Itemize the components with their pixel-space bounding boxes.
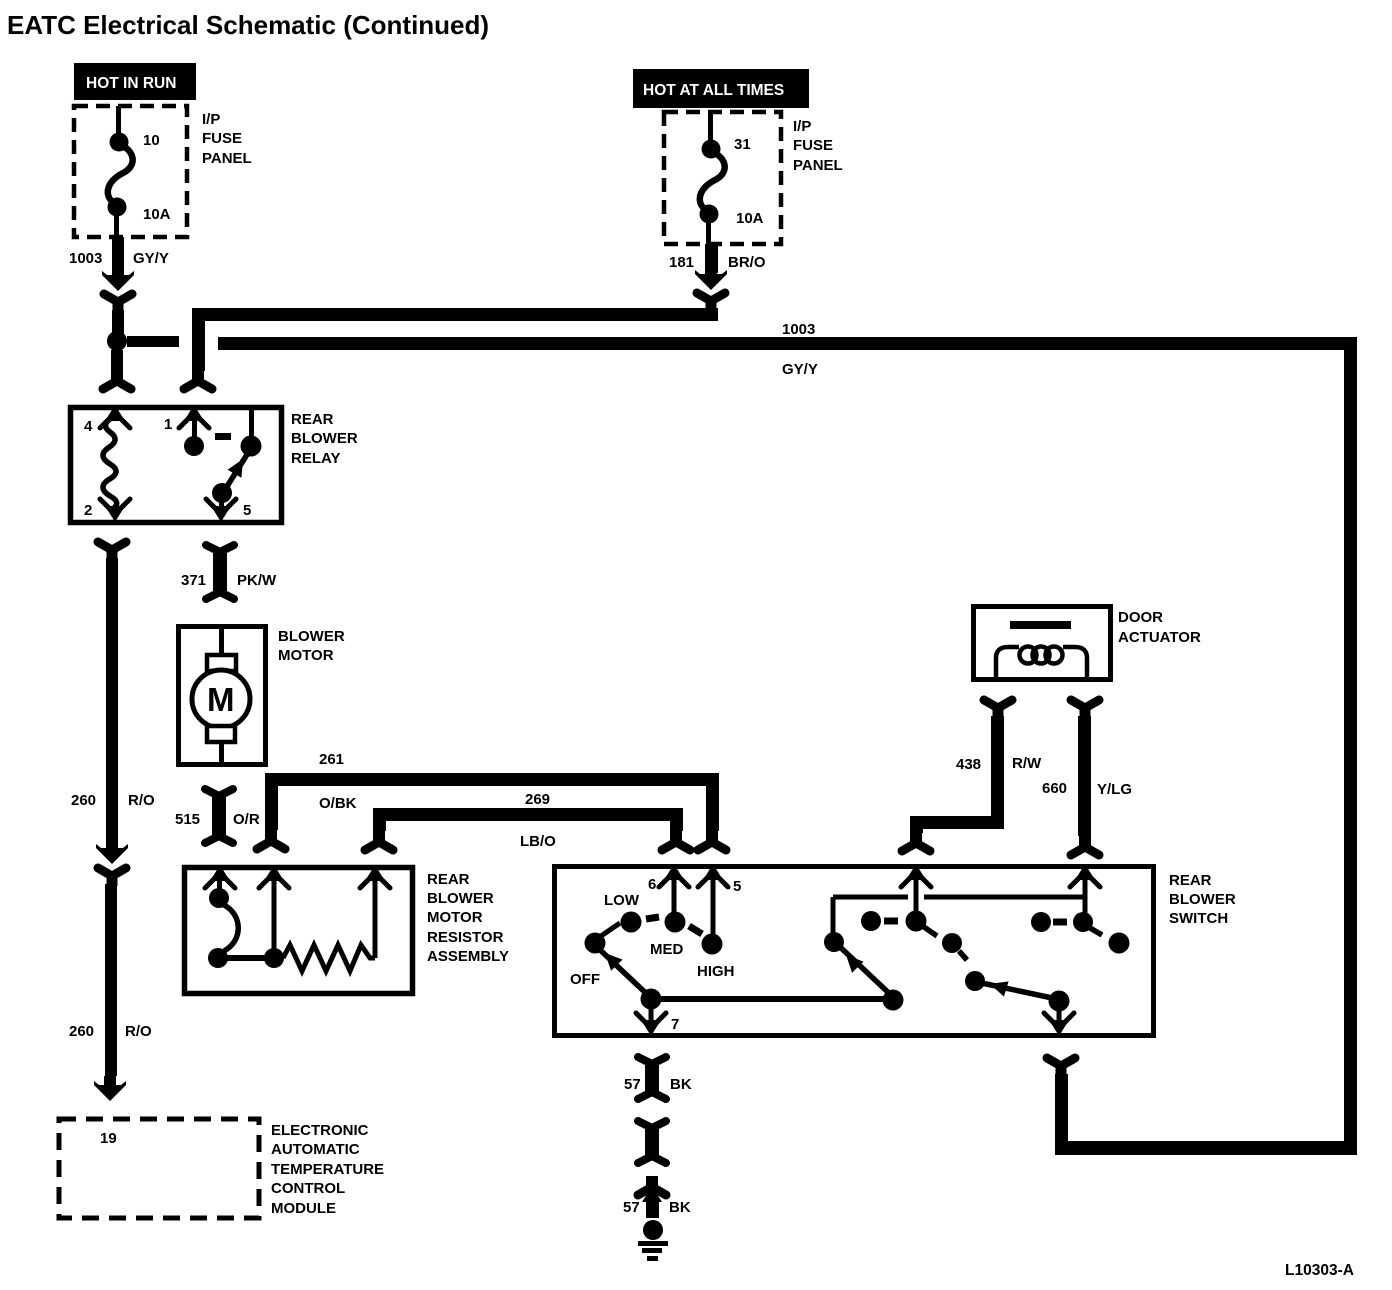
svg-text:MODULE: MODULE: [271, 1200, 336, 1217]
connector arrow below fuse 2: [695, 265, 727, 290]
svg-text:MOTOR: MOTOR: [278, 647, 334, 664]
svg-text:REAR: REAR: [291, 411, 334, 428]
switch right pin shaft: [1083, 874, 1088, 914]
BLOWER MOTOR label: [278, 628, 345, 664]
connector arrow mid 260: [96, 839, 128, 864]
switch right pin dot: [1073, 912, 1093, 932]
REAR BLOWER RELAY label: [291, 411, 358, 467]
relay armature: [226, 453, 248, 488]
svg-text:19: 19: [100, 1130, 117, 1147]
switch pin 6 shaft: [672, 877, 677, 913]
resistor pin 2 arrow: [259, 865, 289, 888]
foot above switch pin 5: [698, 831, 726, 850]
wire 261 left drop: [265, 786, 278, 830]
foot above resistor pin 2: [257, 830, 285, 849]
svg-text:PANEL: PANEL: [793, 157, 843, 174]
fuse panel 2 dashed box: [664, 112, 781, 244]
svg-text:57: 57: [623, 1199, 640, 1216]
switch mid dot left: [861, 911, 881, 931]
ground symbol: [638, 1241, 668, 1261]
svg-text:PK/W: PK/W: [237, 572, 277, 589]
svg-text:260: 260: [69, 1023, 94, 1040]
resistor pin 1 shaft: [217, 878, 222, 890]
svg-text:RESISTOR: RESISTOR: [427, 929, 504, 946]
rear blower switch box: [555, 867, 1154, 1036]
wire 438 jog down: [910, 829, 923, 833]
drop wire to relay pin 1: [192, 321, 205, 371]
svg-text:LOW: LOW: [604, 892, 640, 909]
resistor pin 3 arrow: [360, 865, 390, 888]
switch link left drop: [831, 897, 836, 934]
svg-text:EATC Electrical Schematic (Con: EATC Electrical Schematic (Continued): [7, 10, 489, 40]
svg-text:FUSE: FUSE: [202, 130, 242, 147]
EATC module label: [271, 1122, 384, 1217]
dash mid B: [959, 951, 967, 960]
motor lead top: [219, 629, 224, 657]
motor lead bottom: [219, 742, 224, 764]
svg-text:M: M: [207, 681, 235, 718]
fuse F31 symbol: [700, 112, 725, 244]
svg-text:CONTROL: CONTROL: [271, 1180, 345, 1197]
switch pin 5 shaft: [711, 877, 716, 935]
svg-text:HIGH: HIGH: [697, 963, 735, 980]
main bus 1003 GY/Y horizontal: [218, 337, 1356, 350]
inline connector 515: [205, 789, 233, 843]
dash MED-HIGH: [689, 926, 702, 934]
HOT IN RUN header: [74, 63, 196, 100]
wire switch to bottom bus: [1055, 1074, 1068, 1144]
wiper 2 arrowhead: [840, 949, 863, 972]
connector arrow below fuse 1: [102, 266, 134, 291]
REAR BLOWER MOTOR RESISTOR ASSEMBLY label: [427, 871, 509, 965]
wire 269 horizontal: [373, 808, 683, 821]
switch mid dot C: [965, 971, 985, 991]
svg-text:L10303-A: L10303-A: [1285, 1262, 1354, 1279]
svg-text:GY/Y: GY/Y: [782, 361, 818, 378]
switch OFF dot: [585, 933, 606, 954]
fuse panel 1 dashed box: [74, 106, 187, 237]
svg-text:GY/Y: GY/Y: [133, 250, 169, 267]
foot above resistor pin 3: [365, 831, 393, 850]
ground dot: [643, 1220, 663, 1240]
wire 181 BR/O below fuse 2: [705, 244, 718, 273]
fuse F10 symbol: [108, 106, 133, 237]
svg-text:57: 57: [624, 1076, 641, 1093]
switch right pin arrow: [1070, 864, 1100, 887]
resistor pin 2 shaft: [272, 878, 277, 950]
svg-text:6: 6: [648, 876, 656, 893]
REAR BLOWER SWITCH label: [1169, 872, 1236, 927]
relay pin 1 arrow: [179, 405, 209, 428]
motor brush top: [207, 655, 236, 671]
switch right dot low: [1109, 933, 1130, 954]
svg-text:515: 515: [175, 811, 200, 828]
svg-text:I/P: I/P: [793, 118, 811, 135]
cup below actuator right pin: [1071, 700, 1099, 718]
wire 261 horizontal: [265, 773, 719, 786]
switch MED dot: [665, 912, 686, 933]
svg-text:PANEL: PANEL: [202, 150, 252, 167]
DOOR ACTUATOR label: [1118, 609, 1201, 646]
svg-text:ACTUATOR: ACTUATOR: [1118, 629, 1201, 646]
resistor zigzag: [283, 945, 375, 971]
svg-text:R/O: R/O: [125, 1023, 152, 1040]
svg-text:HOT IN RUN: HOT IN RUN: [86, 75, 176, 92]
svg-text:1003: 1003: [69, 250, 102, 267]
relay pin 5 shaft: [219, 496, 224, 508]
svg-text:1003: 1003: [782, 321, 815, 338]
svg-text:ELECTRONIC: ELECTRONIC: [271, 1122, 369, 1139]
switch bottom right pin arrow: [1044, 1013, 1074, 1036]
svg-text:260: 260: [71, 792, 96, 809]
svg-text:REAR: REAR: [427, 871, 470, 888]
HOT AT ALL TIMES header: [633, 69, 809, 108]
svg-text:371: 371: [181, 572, 206, 589]
relay pin 1 shaft: [192, 416, 197, 438]
relay pin 2 arrow: [100, 499, 130, 522]
wire 181 corner to upper bus: [705, 308, 718, 321]
foot of ground lead: [638, 1176, 666, 1195]
svg-text:MOTOR: MOTOR: [427, 909, 483, 926]
svg-text:O/R: O/R: [233, 811, 260, 828]
wire 261 right drop: [706, 786, 719, 831]
relay coil: [103, 416, 117, 508]
wire 438 R/W vertical: [991, 716, 1004, 818]
resistor assembly box: [185, 868, 413, 994]
svg-text:AUTOMATIC: AUTOMATIC: [271, 1141, 360, 1158]
relay fixed contact line: [249, 407, 254, 437]
relay contact dot pin1: [184, 436, 204, 456]
wire stub right of junction: [127, 336, 179, 347]
switch thin link line: [833, 895, 1085, 900]
dash right diag: [1090, 928, 1102, 935]
svg-text:I/P: I/P: [202, 111, 220, 128]
svg-text:O/BK: O/BK: [319, 795, 357, 812]
bottom bus wire: [1055, 1141, 1356, 1155]
svg-text:RELAY: RELAY: [291, 450, 340, 467]
I/P FUSE PANEL label 1: [202, 111, 252, 167]
svg-text:2: 2: [84, 502, 92, 519]
svg-text:660: 660: [1042, 780, 1067, 797]
svg-text:BR/O: BR/O: [728, 254, 766, 271]
switch pin 7 shaft: [649, 1006, 654, 1028]
foot above switch pin 438: [902, 832, 930, 851]
relay K1 box: [71, 408, 282, 523]
svg-text:438: 438: [956, 756, 981, 773]
switch right dot left: [1031, 912, 1051, 932]
wiper 3 arrowhead: [988, 976, 1009, 996]
EATC module dashed box: [59, 1119, 259, 1218]
svg-text:DOOR: DOOR: [1118, 609, 1163, 626]
motor brush bottom: [207, 726, 235, 742]
ground lead arrow up: [642, 1186, 662, 1202]
svg-text:LB/O: LB/O: [520, 833, 556, 850]
switch mid pin dot: [906, 911, 927, 932]
junction node dot: [107, 331, 127, 351]
relay pin 4 arrow: [100, 405, 130, 428]
main bus right vertical: [1344, 337, 1357, 1155]
wire 260 R/O lower: [105, 884, 117, 1076]
inline connector 57 upper: [638, 1057, 666, 1099]
connector cup below fuse 2: [697, 293, 725, 311]
wire 269 left drop: [373, 821, 386, 831]
switch wiper 3: [977, 982, 1057, 999]
door actuator coil: [996, 647, 1087, 679]
switch wiper 1: [597, 947, 650, 997]
wire 438 jog horizontal: [910, 816, 1004, 829]
wire 660 Y/LG vertical: [1078, 716, 1091, 836]
connector cup below relay pin 2: [98, 542, 126, 560]
svg-text:10: 10: [143, 132, 160, 149]
wire to junction: [112, 310, 124, 334]
connector cup mid 260: [98, 868, 126, 886]
wire 269 right drop: [670, 821, 683, 831]
relay pin 5 arrow: [206, 499, 236, 522]
resistor pin 1 arrow: [205, 865, 235, 888]
switch pin 5 arrow: [698, 864, 728, 887]
arrow into EATC module: [94, 1076, 126, 1101]
svg-text:FUSE: FUSE: [793, 137, 833, 154]
connector cup below fuse 1: [104, 294, 132, 312]
svg-text:181: 181: [669, 254, 694, 271]
switch LOW dot: [621, 912, 642, 933]
switch common dot 1: [641, 989, 662, 1010]
switch wiper 2: [839, 946, 892, 996]
svg-text:BK: BK: [670, 1076, 692, 1093]
stub mid pin: [924, 927, 937, 936]
svg-text:SWITCH: SWITCH: [1169, 910, 1228, 927]
switch mid dot B: [942, 933, 962, 953]
resistor arc: [224, 905, 238, 951]
dash right pair: [1053, 919, 1067, 926]
wire 1003 GY/Y below fuse 1: [112, 237, 124, 274]
switch common dot 2: [883, 990, 904, 1011]
inline connector 371: [206, 545, 234, 599]
switch mid pin shaft: [914, 874, 919, 914]
svg-text:HOT AT ALL TIMES: HOT AT ALL TIMES: [643, 82, 784, 99]
blower motor box: [179, 627, 266, 765]
relay moving contact dot: [212, 483, 232, 503]
svg-text:BK: BK: [669, 1199, 691, 1216]
switch HIGH dot: [702, 934, 723, 955]
resistor dot 3: [264, 948, 284, 968]
wire 260 R/O upper: [106, 558, 118, 844]
tie line commons: [651, 996, 893, 1002]
svg-text:10A: 10A: [143, 206, 171, 223]
foot above switch pin 660: [1071, 836, 1099, 855]
ground lead wire: [646, 1198, 659, 1218]
svg-text:10A: 10A: [736, 210, 764, 227]
dash LOW-MED: [646, 917, 659, 919]
foot above switch pin 6: [662, 831, 690, 850]
cup below actuator left pin: [984, 700, 1012, 718]
resistor pin 3 shaft: [373, 878, 378, 958]
relay linkage dash: [215, 433, 231, 440]
relay fixed contact dot: [241, 436, 262, 457]
switch pin 6 arrow: [659, 864, 689, 887]
svg-text:R/W: R/W: [1012, 755, 1042, 772]
svg-text:REAR: REAR: [1169, 872, 1212, 889]
svg-text:BLOWER: BLOWER: [1169, 891, 1236, 908]
wire foot above relay pin 1: [184, 370, 212, 389]
cup below switch bottom right pin: [1047, 1058, 1075, 1076]
svg-text:ASSEMBLY: ASSEMBLY: [427, 948, 509, 965]
svg-text:Y/LG: Y/LG: [1097, 781, 1132, 798]
motor body circle: [192, 670, 250, 728]
svg-text:269: 269: [525, 791, 550, 808]
svg-text:31: 31: [734, 136, 751, 153]
svg-text:5: 5: [733, 878, 741, 895]
svg-text:5: 5: [243, 502, 251, 519]
upper bus wire to relay pin 1: [192, 308, 718, 321]
dash mid pair: [884, 918, 898, 925]
switch pin 7 arrow: [636, 1013, 666, 1036]
inline connector mid: [638, 1121, 666, 1163]
resistor dot 2: [208, 948, 228, 968]
svg-text:4: 4: [84, 418, 93, 435]
switch mid contact A dot: [824, 932, 844, 952]
switch mid pin arrow: [901, 864, 931, 887]
resistor dot 1: [209, 888, 229, 908]
door actuator bar: [1010, 621, 1071, 629]
I/P FUSE PANEL label 2: [793, 118, 843, 174]
wire foot above relay pin 4: [103, 370, 131, 389]
svg-text:BLOWER: BLOWER: [291, 430, 358, 447]
wire junction to relay pin 4: [111, 350, 123, 374]
svg-text:BLOWER: BLOWER: [278, 628, 345, 645]
svg-text:7: 7: [671, 1016, 679, 1033]
svg-text:OFF: OFF: [570, 971, 600, 988]
switch bottom right pin shaft: [1057, 1008, 1062, 1028]
switch common dot 3: [1049, 991, 1070, 1012]
svg-text:BLOWER: BLOWER: [427, 890, 494, 907]
relay armature arrowhead: [228, 455, 250, 478]
svg-text:261: 261: [319, 751, 344, 768]
svg-text:MED: MED: [650, 941, 684, 958]
svg-text:TEMPERATURE: TEMPERATURE: [271, 1161, 384, 1178]
door actuator box: [974, 607, 1111, 680]
resistor link line: [222, 955, 268, 961]
svg-text:1: 1: [164, 416, 172, 433]
stub OFF-LOW: [601, 923, 620, 936]
svg-text:R/O: R/O: [128, 792, 155, 809]
wiper 1 arrowhead: [599, 947, 622, 970]
